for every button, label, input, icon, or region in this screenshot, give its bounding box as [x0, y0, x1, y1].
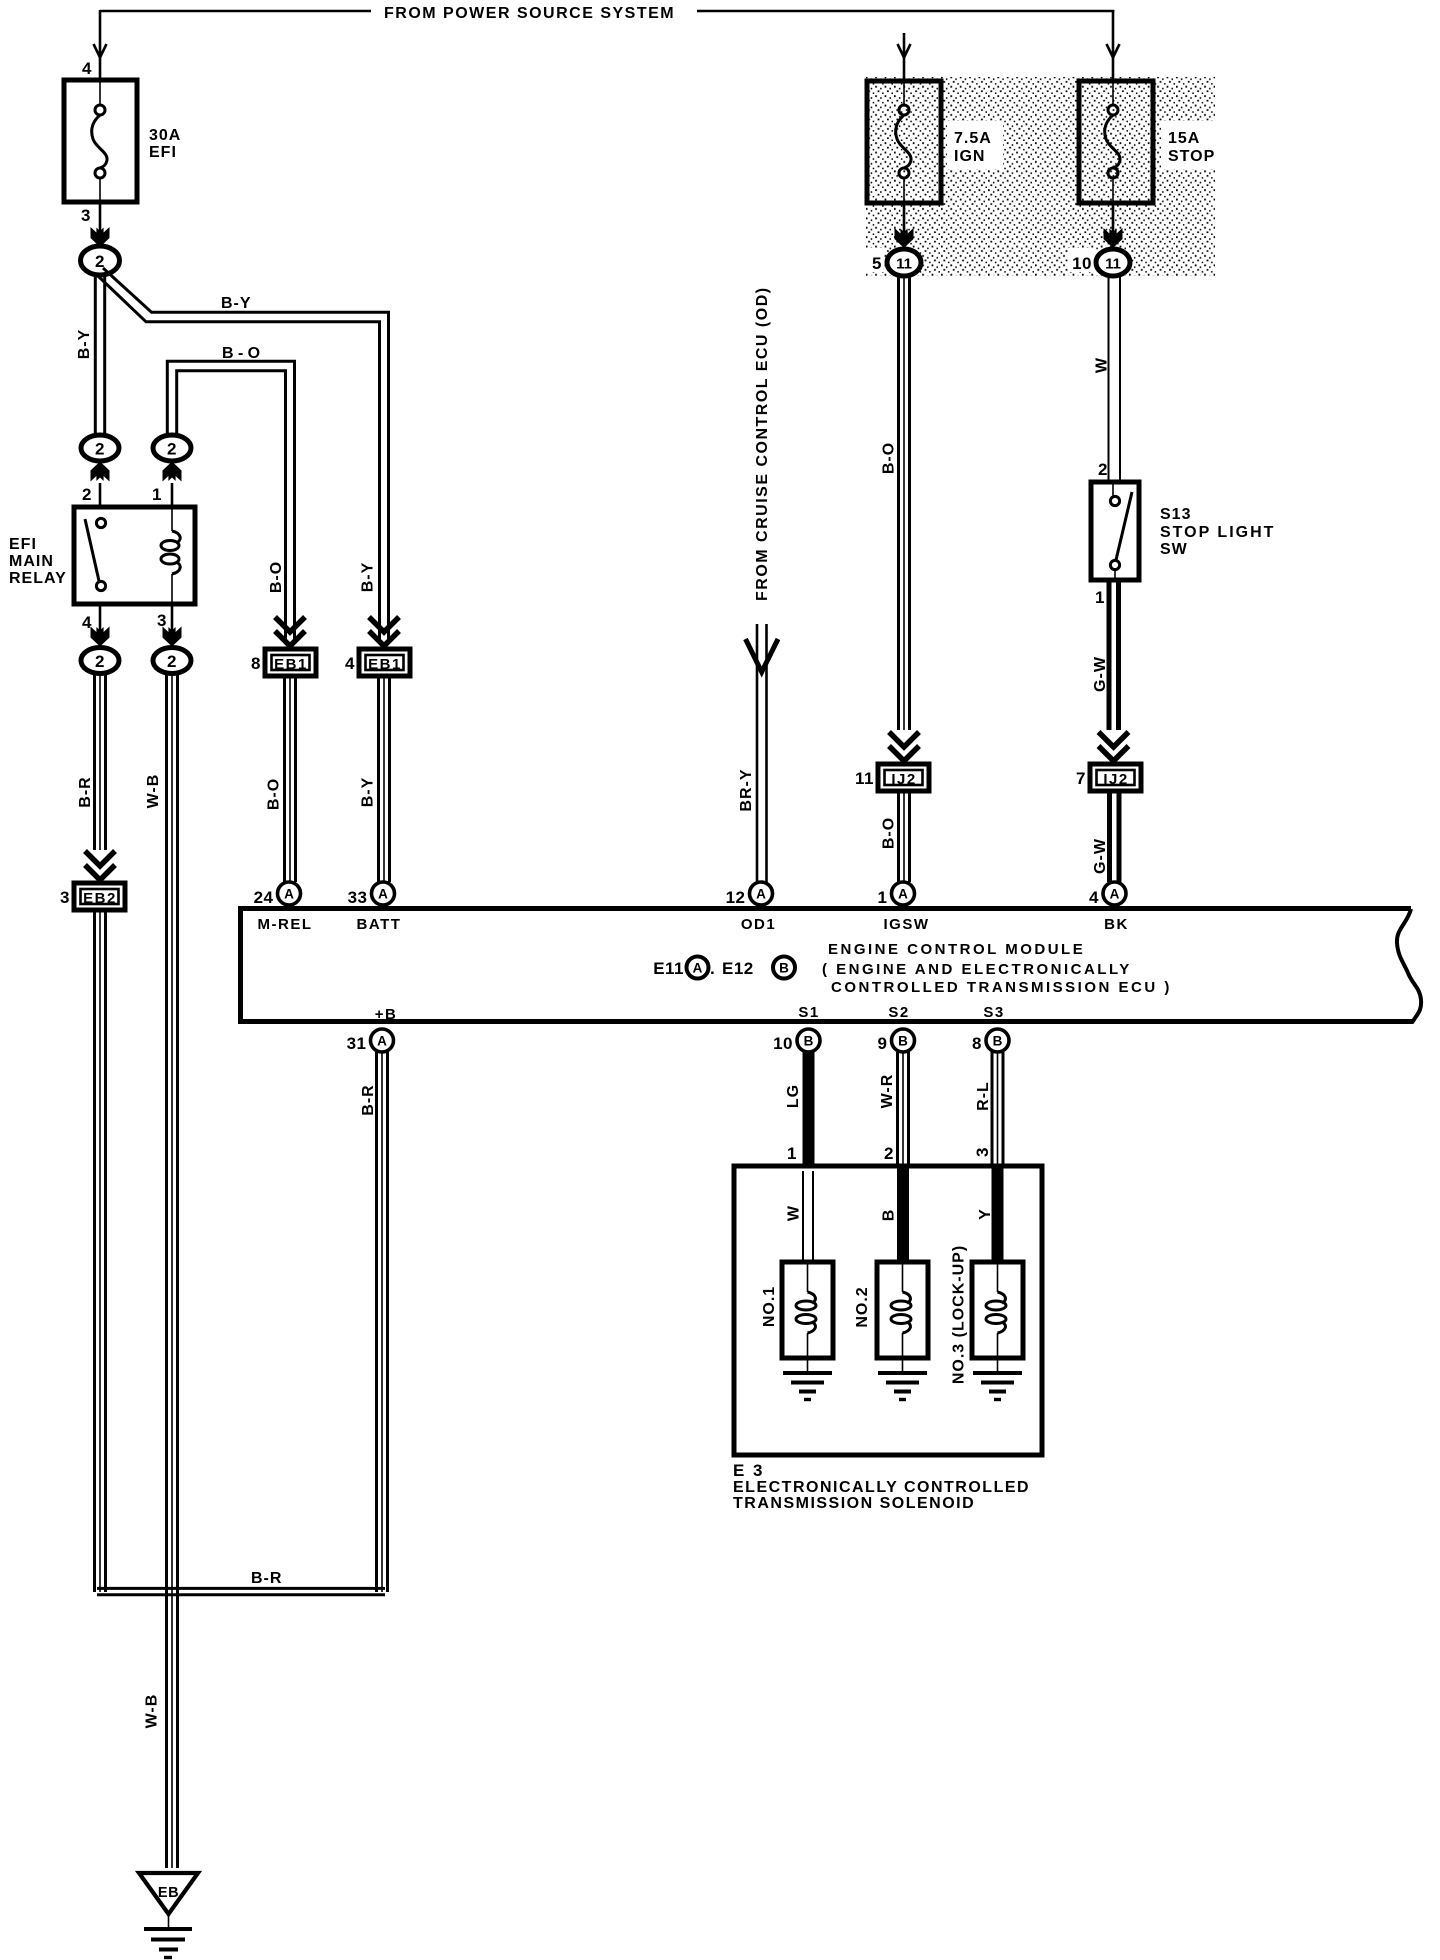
svg-text:8: 8: [972, 1034, 982, 1053]
ground (solenoid NO.2): [878, 1358, 927, 1400]
svg-text:BR-Y: BR-Y: [738, 768, 755, 811]
svg-text:S1: S1: [798, 1004, 819, 1021]
svg-text:11: 11: [855, 769, 874, 788]
junction EB1 (pin 8): [265, 649, 316, 676]
svg-text:5: 5: [872, 254, 882, 273]
label: ELECTRONICALLY CONTROLLED TRANSMISSION SOLENOID: [733, 1479, 1030, 1512]
wire: W-B (relay pin 3 down to EB ground): [167, 674, 178, 1868]
svg-text:2: 2: [884, 1144, 894, 1163]
E3 solenoid assembly box: [734, 1166, 1042, 1455]
svg-text:7.5A: 7.5A: [954, 130, 992, 147]
wire: relay pin 3 to connector: [163, 604, 182, 647]
svg-text:S2: S2: [888, 1004, 909, 1021]
svg-text:2: 2: [1098, 460, 1108, 479]
svg-text:M-REL: M-REL: [258, 916, 313, 933]
svg-text:E12: E12: [722, 959, 754, 978]
svg-text:R-L: R-L: [975, 1081, 992, 1111]
svg-text:B-O: B-O: [266, 778, 283, 810]
junction EB2: [74, 883, 125, 910]
svg-text:1: 1: [152, 485, 162, 504]
wire: G-W (S13 down to IJ2 #7): [1109, 580, 1119, 730]
svg-text:11: 11: [1105, 256, 1121, 273]
svg-text:A: A: [898, 887, 908, 902]
wire: B-O (connector 11 down to IJ2 #11): [899, 276, 910, 730]
svg-text:2: 2: [167, 652, 177, 671]
connector 2 (relay pin 3 output): [153, 648, 191, 674]
svg-text:3: 3: [973, 1147, 992, 1157]
svg-text:SW: SW: [1160, 541, 1188, 558]
wire: BR-Y (from cruise control ECU down to ECU pin 12 OD1): [746, 624, 779, 882]
ground symbol (below EB triangle): [144, 1929, 192, 1958]
wire: B-Y branch (diagonal + horizontal to x=384, down to EB1 #4): [98, 268, 389, 640]
wire: fuse 30A to connector, with solid arrow: [91, 202, 110, 247]
connector 2 (relay pin 4 output): [81, 648, 119, 674]
svg-text:EB1: EB1: [368, 656, 402, 673]
svg-text:TRANSMISSION SOLENOID: TRANSMISSION SOLENOID: [733, 1495, 975, 1512]
svg-text:30A: 30A: [149, 127, 181, 144]
svg-text:W-B: W-B: [144, 1694, 161, 1729]
svg-text:1: 1: [787, 1144, 797, 1163]
svg-text:24: 24: [254, 888, 274, 907]
chevron arrow into IJ2 #7: [1099, 732, 1129, 761]
wire: power source rail (top): [100, 10, 1114, 13]
svg-text:B-O: B-O: [881, 817, 898, 849]
svg-text:A: A: [377, 1034, 387, 1049]
svg-text:4: 4: [82, 59, 92, 78]
ground EB (triangle): [139, 1873, 198, 1927]
svg-text:( ENGINE AND ELECTRONICALLY: ( ENGINE AND ELECTRONICALLY: [822, 961, 1132, 978]
svg-text:8: 8: [251, 654, 261, 673]
svg-text:4: 4: [1089, 888, 1099, 907]
solenoid NO.2: [877, 1262, 928, 1358]
svg-text:B: B: [804, 1034, 814, 1049]
svg-text:15A: 15A: [1168, 130, 1200, 147]
svg-text:G-W: G-W: [1092, 838, 1109, 874]
svg-text:E 3: E 3: [733, 1461, 765, 1480]
ECU pin 10 (B) S1: [797, 1029, 820, 1052]
wire: B-R (EB2 down to bottom bus): [95, 910, 106, 1592]
svg-text:B-Y: B-Y: [221, 295, 252, 312]
svg-text:B-O: B-O: [268, 561, 285, 593]
chevron arrow into EB2: [85, 851, 115, 880]
wire: W-R (ECU pin 9 down to solenoid box): [898, 1052, 909, 1166]
svg-text:FROM CRUISE CONTROL ECU (OD): FROM CRUISE CONTROL ECU (OD): [754, 286, 771, 601]
svg-text:4: 4: [345, 654, 355, 673]
svg-text:10: 10: [1072, 254, 1092, 273]
svg-text:ENGINE CONTROL MODULE: ENGINE CONTROL MODULE: [828, 941, 1085, 958]
wire: relay pin 4 to connector: [91, 604, 110, 647]
svg-text:9: 9: [878, 1034, 888, 1053]
wire: power rail corner down to 15A STOP fuse: [1107, 10, 1120, 80]
svg-text:2: 2: [82, 485, 92, 504]
wire: Y (inside box, solid, to solenoid NO.3): [992, 1166, 1004, 1262]
svg-text:W-B: W-B: [145, 774, 162, 809]
svg-text:BATT: BATT: [357, 916, 402, 933]
wire: B (inside box, solid, to solenoid NO.2): [897, 1166, 909, 1262]
svg-text:2: 2: [167, 440, 177, 459]
wire: B-R (relay pin 4 down to EB2): [95, 674, 106, 850]
svg-text:B-O: B-O: [881, 442, 898, 474]
svg-text:3: 3: [60, 888, 70, 907]
svg-text:ELECTRONICALLY CONTROLLED: ELECTRONICALLY CONTROLLED: [733, 1479, 1030, 1496]
svg-text:A: A: [756, 887, 766, 902]
svg-text:NO.2: NO.2: [854, 1286, 871, 1327]
svg-text:B-R: B-R: [77, 776, 94, 807]
svg-text:12: 12: [726, 888, 746, 907]
svg-text:S13: S13: [1160, 506, 1191, 523]
svg-text:A: A: [378, 887, 388, 902]
svg-text:W: W: [786, 1205, 803, 1221]
svg-text:B-Y: B-Y: [360, 777, 377, 808]
svg-text:IJ2: IJ2: [1103, 771, 1128, 788]
svg-text:LG: LG: [785, 1084, 802, 1108]
svg-text:EB1: EB1: [274, 656, 308, 673]
svg-text:1: 1: [878, 888, 888, 907]
switch S13 STOP LIGHT SW: [1091, 482, 1139, 580]
svg-text:31: 31: [347, 1034, 367, 1053]
ECU title text: [822, 941, 1172, 996]
ECU pin 12 (A) OD1: [750, 882, 773, 905]
wire: W (inside box, to solenoid NO.1): [803, 1171, 813, 1262]
ground (solenoid NO.3): [973, 1358, 1022, 1400]
svg-text:33: 33: [348, 888, 368, 907]
shaded halftone region around IGN/STOP fuses: [862, 77, 1223, 276]
fuse 30A EFI: [64, 80, 137, 202]
wire: B-O (IJ2 #11 down to ECU pin 1 IGSW): [899, 791, 910, 882]
svg-text:B-Y: B-Y: [360, 562, 377, 593]
svg-text:IGSW: IGSW: [884, 916, 930, 933]
svg-text:BK: BK: [1104, 916, 1129, 933]
wire: B-R bottom bus (horizontal): [97, 1588, 385, 1594]
connector 2 (below 30A fuse): [81, 246, 120, 275]
svg-text:IJ2: IJ2: [891, 771, 916, 788]
wire: B-O (EB1 #8 down to ECU pin 24): [285, 676, 296, 882]
wire: LG (ECU pin 10 down to solenoid box, solid): [803, 1052, 815, 1168]
wire: G-W (IJ2 #7 down to ECU pin 4 BK): [1110, 791, 1120, 882]
svg-text:2: 2: [95, 652, 105, 671]
ECU box: ENGINE CONTROL MODULE: [238, 906, 1421, 1024]
svg-text:OD1: OD1: [741, 916, 776, 933]
svg-text:B: B: [779, 961, 789, 976]
wire: feed down to 30A EFI fuse: [94, 10, 107, 79]
wire: R-L (ECU pin 8 down to solenoid box): [992, 1052, 1003, 1166]
ECU pin 31 (A) +B: [371, 1029, 394, 1052]
chevron arrow into EB1 #8: [275, 617, 305, 646]
svg-text:1: 1: [1095, 588, 1105, 607]
svg-text:B-R: B-R: [251, 1570, 282, 1587]
svg-text:EB2: EB2: [83, 890, 117, 907]
svg-text:.: .: [710, 959, 715, 978]
connector 2 (relay pin 1): [153, 435, 191, 507]
wire: B-Y vertical (fuse to relay pin 2): [95, 274, 104, 436]
ECU pin 9 (B) S2: [892, 1029, 915, 1052]
fuse 7.5A IGN: [867, 81, 941, 203]
wire: feed down to 7.5A IGN fuse: [898, 33, 911, 80]
connector 2 (relay pin 2): [81, 435, 119, 507]
ECU pin 4 (A) BK: [1103, 882, 1126, 905]
fuse 15A STOP: [1079, 81, 1153, 203]
svg-text:CONTROLLED TRANSMISSION ECU: CONTROLLED TRANSMISSION ECU ): [831, 979, 1172, 996]
solenoid NO.1: [782, 1262, 833, 1358]
ECU pin 24 (A) M-REL: [278, 882, 301, 905]
relay EFI MAIN RELAY box: [74, 507, 195, 604]
svg-text:NO.3 (LOCK-UP): NO.3 (LOCK-UP): [951, 1245, 968, 1384]
wire: B-Y (EB1 #4 down to ECU pin 33): [379, 676, 390, 882]
wire: B-R (bus up to ECU pin 31 +B): [377, 1052, 388, 1592]
connector 11 (IGN): [887, 249, 921, 276]
junction EB1 (pin 4): [359, 649, 410, 676]
svg-text:G-W: G-W: [1092, 656, 1109, 692]
svg-text:B-O: B-O: [222, 345, 265, 362]
svg-text:STOP: STOP: [1168, 148, 1215, 165]
svg-text:EB: EB: [158, 1885, 179, 1901]
svg-text:3: 3: [81, 206, 91, 225]
wire: fuse IGN to connector 11, with solid arrow: [895, 203, 914, 248]
svg-text:A: A: [1110, 887, 1120, 902]
svg-text:7: 7: [1076, 769, 1086, 788]
svg-text:E11: E11: [653, 959, 684, 978]
svg-text:S3: S3: [983, 1004, 1004, 1021]
svg-text:11: 11: [896, 256, 912, 273]
ECU pin 1 (A) IGSW: [892, 882, 915, 905]
svg-text:3: 3: [157, 611, 167, 630]
svg-text:W: W: [1094, 357, 1111, 373]
wire: W (connector 11 down to S13): [1109, 276, 1121, 482]
svg-text:B: B: [993, 1034, 1003, 1049]
svg-text:+B: +B: [375, 1006, 398, 1023]
svg-text:Y: Y: [977, 1208, 994, 1220]
junction IJ2 (pin 7): [1090, 764, 1141, 791]
svg-text:MAIN: MAIN: [9, 553, 54, 570]
svg-text:EFI: EFI: [9, 536, 37, 553]
ECU pin 33 (A) BATT: [372, 882, 395, 905]
svg-text:NO.1: NO.1: [761, 1286, 778, 1327]
svg-text:B-R: B-R: [360, 1084, 377, 1115]
chevron arrow into EB1 #4: [369, 617, 399, 646]
svg-text:B: B: [881, 1209, 898, 1222]
svg-text:B-Y: B-Y: [76, 329, 93, 360]
chevron arrow into IJ2 #11: [889, 732, 919, 761]
junction IJ2 (pin 11): [878, 764, 929, 791]
svg-text:B: B: [898, 1034, 908, 1049]
svg-text:A: A: [284, 887, 294, 902]
wire: B-O branch (relay pin 1 up, right, down to EB1 #8): [167, 361, 294, 640]
svg-text:EFI: EFI: [149, 144, 177, 161]
svg-text:IGN: IGN: [954, 148, 985, 165]
svg-text:STOP LIGHT: STOP LIGHT: [1160, 524, 1275, 541]
ECU pin 8 (B) S3: [986, 1029, 1009, 1052]
connector 11 (STOP): [1096, 249, 1130, 276]
ground (solenoid NO.1): [783, 1358, 832, 1400]
svg-text:W-R: W-R: [879, 1074, 896, 1109]
solenoid NO.3 (LOCK-UP): [972, 1262, 1023, 1358]
svg-text:RELAY: RELAY: [9, 570, 67, 587]
svg-text:2: 2: [95, 440, 105, 459]
svg-text:A: A: [693, 961, 703, 976]
svg-text:FROM POWER SOURCE SYSTEM: FROM POWER SOURCE SYSTEM: [384, 5, 675, 22]
wire: fuse STOP to connector 11, with solid arrow: [1104, 203, 1123, 248]
svg-text:10: 10: [773, 1034, 793, 1053]
ECU internal label E11(A), E12(B): [653, 957, 795, 979]
